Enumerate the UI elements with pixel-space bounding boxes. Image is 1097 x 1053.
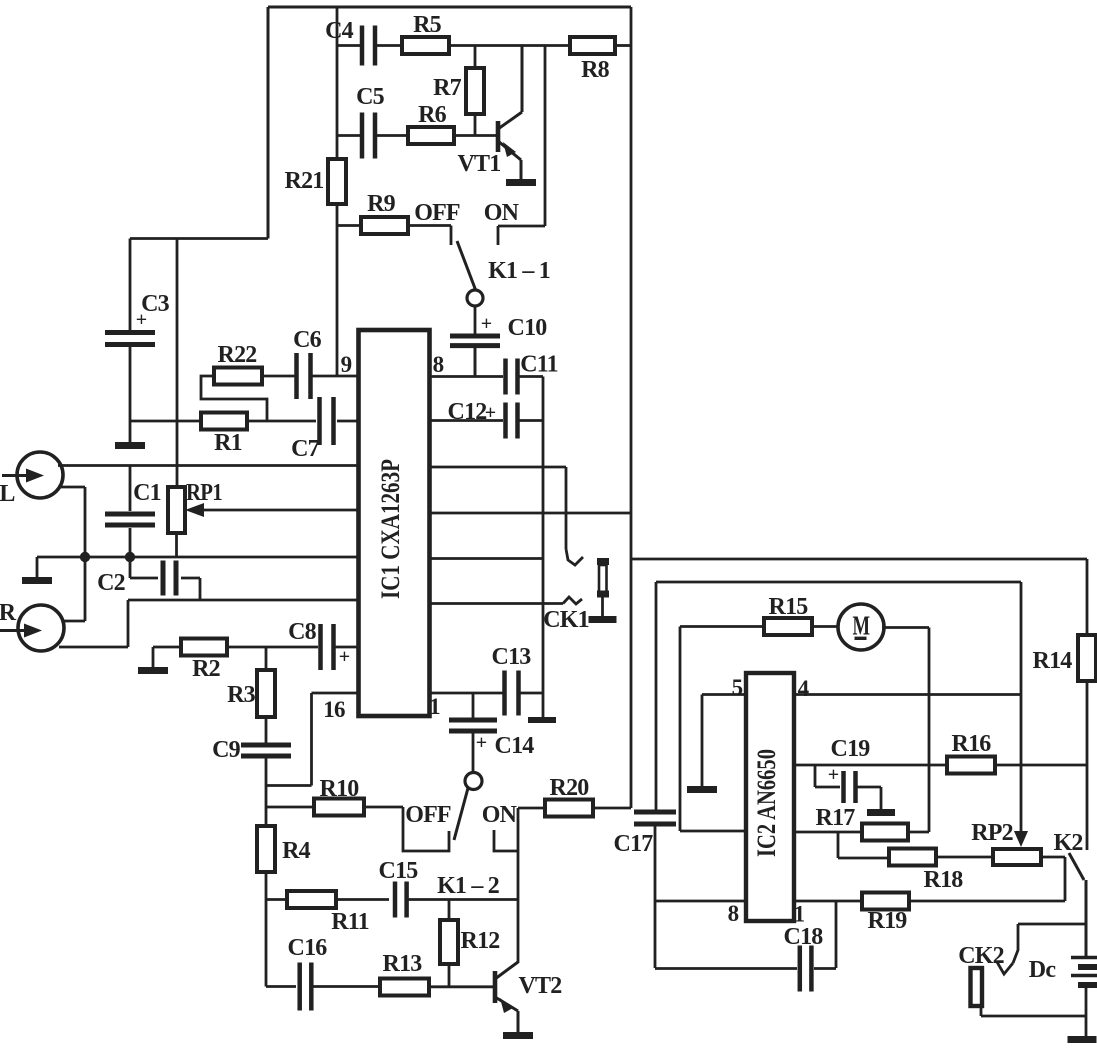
svg-text:C17: C17 <box>614 831 654 857</box>
svg-text:R10: R10 <box>320 776 360 802</box>
svg-text:IC1 CXA1263P: IC1 CXA1263P <box>376 459 405 599</box>
svg-text:C5: C5 <box>356 84 385 110</box>
svg-text:C16: C16 <box>288 935 328 961</box>
svg-text:M: M <box>853 611 870 641</box>
svg-text:C7: C7 <box>291 436 320 462</box>
svg-text:R1: R1 <box>214 430 242 456</box>
svg-text:C11: C11 <box>520 352 558 378</box>
svg-text:RP2: RP2 <box>971 820 1013 846</box>
svg-text:R6: R6 <box>418 102 447 128</box>
svg-text:VT2: VT2 <box>519 973 562 999</box>
svg-text:1: 1 <box>429 694 440 719</box>
svg-text:R13: R13 <box>383 951 423 977</box>
svg-text:K2: K2 <box>1053 830 1082 856</box>
svg-text:5: 5 <box>732 675 743 700</box>
svg-text:C9: C9 <box>212 737 241 763</box>
svg-text:R20: R20 <box>550 775 590 801</box>
svg-text:R16: R16 <box>952 731 992 757</box>
svg-text:R17: R17 <box>816 805 856 831</box>
svg-text:OFF: OFF <box>414 200 460 226</box>
svg-text:+: + <box>481 313 492 335</box>
svg-text:Dc: Dc <box>1029 957 1057 983</box>
svg-text:C10: C10 <box>508 315 548 341</box>
svg-text:CK1: CK1 <box>543 607 589 633</box>
svg-text:R9: R9 <box>367 191 396 217</box>
svg-text:R19: R19 <box>868 908 908 934</box>
svg-text:+: + <box>828 764 839 786</box>
svg-text:R11: R11 <box>331 909 369 935</box>
svg-text:C8: C8 <box>288 619 317 645</box>
svg-text:R4: R4 <box>282 838 311 864</box>
svg-text:R7: R7 <box>433 75 462 101</box>
svg-text:C13: C13 <box>492 644 532 670</box>
svg-text:C1: C1 <box>133 480 161 506</box>
svg-text:+: + <box>476 732 487 754</box>
svg-text:R12: R12 <box>461 928 500 954</box>
svg-text:+: + <box>485 402 496 424</box>
svg-text:R21: R21 <box>285 168 324 194</box>
svg-text:9: 9 <box>341 352 352 377</box>
svg-text:VT1: VT1 <box>458 151 501 177</box>
svg-text:ON: ON <box>482 802 518 828</box>
svg-text:R14: R14 <box>1033 648 1073 674</box>
svg-text:+: + <box>339 646 350 668</box>
svg-text:C2: C2 <box>97 570 125 596</box>
svg-text:IC2 AN6650: IC2 AN6650 <box>752 749 781 857</box>
svg-text:R: R <box>0 600 17 626</box>
svg-text:R18: R18 <box>924 867 964 893</box>
svg-text:4: 4 <box>798 676 810 701</box>
svg-text:C18: C18 <box>784 924 824 950</box>
svg-text:C4: C4 <box>325 18 354 44</box>
svg-text:RP1: RP1 <box>186 480 222 506</box>
svg-text:R5: R5 <box>413 12 442 38</box>
svg-text:R8: R8 <box>581 57 610 83</box>
svg-text:OFF: OFF <box>405 802 451 828</box>
svg-text:8: 8 <box>433 352 444 377</box>
svg-text:R15: R15 <box>769 594 809 620</box>
svg-text:K1 – 2: K1 – 2 <box>437 873 499 899</box>
svg-text:16: 16 <box>323 697 345 722</box>
svg-text:8: 8 <box>728 901 739 926</box>
svg-text:R2: R2 <box>192 656 220 682</box>
svg-text:CK2: CK2 <box>958 943 1004 969</box>
svg-text:C12: C12 <box>448 399 487 425</box>
svg-text:1: 1 <box>794 902 805 927</box>
svg-text:K1 – 1: K1 – 1 <box>488 258 550 284</box>
svg-text:L: L <box>0 481 15 507</box>
svg-text:C6: C6 <box>293 327 322 353</box>
svg-text:ON: ON <box>484 200 520 226</box>
svg-text:+: + <box>136 309 147 331</box>
svg-text:R3: R3 <box>227 682 256 708</box>
svg-text:C15: C15 <box>379 858 419 884</box>
svg-text:R22: R22 <box>218 342 257 368</box>
svg-text:C19: C19 <box>831 736 871 762</box>
svg-text:C14: C14 <box>495 733 535 759</box>
